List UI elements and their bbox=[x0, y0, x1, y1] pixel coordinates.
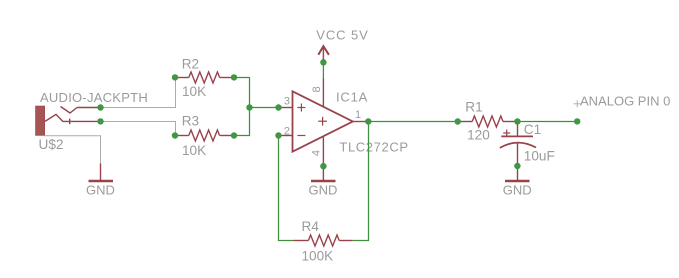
svg-text:10K: 10K bbox=[182, 84, 206, 99]
svg-text:10uF: 10uF bbox=[524, 149, 555, 164]
svg-text:10K: 10K bbox=[182, 143, 206, 158]
svg-text:8: 8 bbox=[311, 86, 323, 92]
svg-text:R4: R4 bbox=[302, 219, 320, 234]
svg-text:2: 2 bbox=[284, 126, 290, 138]
svg-text:VCC 5V: VCC 5V bbox=[316, 28, 368, 43]
svg-text:C1: C1 bbox=[524, 122, 541, 137]
svg-text:IC1A: IC1A bbox=[336, 90, 368, 105]
svg-text:R2: R2 bbox=[182, 56, 199, 71]
svg-text:GND: GND bbox=[86, 183, 115, 198]
svg-text:3: 3 bbox=[284, 95, 290, 107]
svg-text:4: 4 bbox=[310, 150, 322, 156]
svg-text:GND: GND bbox=[503, 183, 532, 198]
svg-text:U$2: U$2 bbox=[39, 137, 64, 152]
svg-text:1: 1 bbox=[355, 109, 361, 121]
svg-text:R3: R3 bbox=[182, 113, 199, 128]
svg-text:100K: 100K bbox=[302, 248, 334, 263]
svg-text:AUDIO-JACKPTH: AUDIO-JACKPTH bbox=[40, 90, 148, 105]
svg-text:R1: R1 bbox=[465, 99, 482, 114]
svg-text:TLC272CP: TLC272CP bbox=[339, 139, 408, 154]
svg-text:ANALOG PIN 0: ANALOG PIN 0 bbox=[580, 93, 670, 108]
svg-text:GND: GND bbox=[309, 183, 338, 198]
svg-text:120: 120 bbox=[467, 127, 490, 142]
